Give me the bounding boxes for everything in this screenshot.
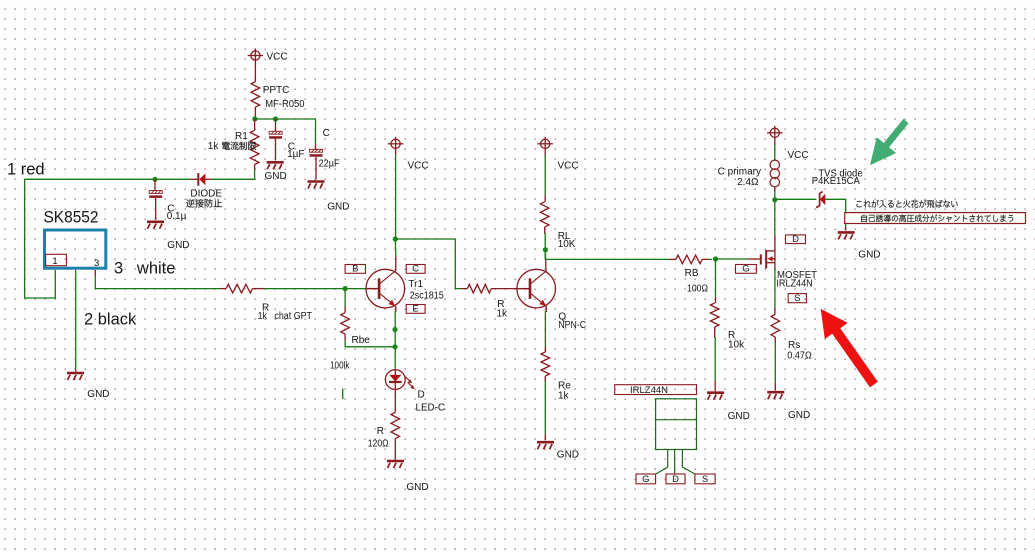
junction at 1uF cap bbox=[273, 116, 278, 121]
svg-text:22µF: 22µF bbox=[319, 159, 340, 170]
power symbol VCC (coil) bbox=[767, 126, 809, 161]
svg-text:G: G bbox=[742, 264, 749, 275]
text 3 white bbox=[114, 260, 175, 278]
wire junction to caps bbox=[255, 119, 316, 144]
svg-text:100Ω: 100Ω bbox=[687, 284, 708, 295]
svg-text:GND: GND bbox=[858, 250, 880, 261]
svg-text:P4KE15CA: P4KE15CA bbox=[812, 176, 860, 187]
module SK8552 body bbox=[45, 230, 106, 268]
svg-text:2.4Ω: 2.4Ω bbox=[737, 177, 759, 188]
resistor PPTC MF-R050 bbox=[251, 82, 305, 110]
svg-text:10k: 10k bbox=[728, 340, 745, 351]
wire MOSFET source down to Rs bbox=[774, 263, 776, 315]
svg-text:1k chat GPT: 1k chat GPT bbox=[258, 311, 312, 322]
svg-text:C: C bbox=[412, 264, 419, 275]
svg-text:IRLZ44N: IRLZ44N bbox=[776, 279, 812, 290]
svg-text:GND: GND bbox=[406, 482, 428, 493]
svg-text:D: D bbox=[792, 234, 799, 245]
pin label S (package) bbox=[695, 474, 715, 485]
resistor Rs 0.47 ohm bbox=[771, 314, 812, 361]
text SK8552 bbox=[44, 209, 99, 227]
svg-text:GND: GND bbox=[728, 411, 750, 422]
resistor RL 10K bbox=[540, 202, 575, 250]
green arrow annotation bbox=[870, 119, 909, 165]
svg-text:DIODE: DIODE bbox=[190, 189, 222, 200]
svg-text:0.1µ: 0.1µ bbox=[167, 211, 187, 222]
wire RL to collector node bbox=[544, 227, 547, 259]
svg-text:1k: 1k bbox=[558, 391, 570, 402]
svg-text:VCC: VCC bbox=[788, 150, 809, 161]
power symbol VCC (top) bbox=[248, 49, 288, 63]
junction Tr1 collector node bbox=[393, 236, 398, 241]
svg-text:Tr1: Tr1 bbox=[408, 279, 423, 290]
TVS diode P4KE15CA bbox=[812, 169, 863, 208]
transistor Q NPN-C bbox=[517, 269, 586, 331]
junction gate node bbox=[713, 256, 718, 261]
svg-text:C: C bbox=[323, 128, 330, 139]
wire stub (stray) bbox=[342, 389, 344, 400]
svg-text:VCC: VCC bbox=[558, 161, 579, 172]
svg-text:1k: 1k bbox=[497, 309, 509, 320]
wire VCC down to collector node bbox=[395, 151, 397, 239]
svg-text:2sc1815: 2sc1815 bbox=[410, 291, 444, 302]
wire gate node to MOSFET gate bbox=[716, 258, 760, 260]
ground below LED resistor bbox=[387, 461, 429, 493]
pin label D (package) bbox=[666, 474, 685, 485]
svg-text:GND: GND bbox=[87, 389, 109, 400]
wire 1uF to ground bbox=[275, 139, 277, 161]
ground below Rs bbox=[767, 392, 810, 421]
LED D LED-C bbox=[385, 370, 445, 414]
pin label 1 bbox=[46, 254, 67, 266]
junction at 0.1u cap tap bbox=[152, 177, 157, 182]
svg-text:C primary: C primary bbox=[718, 167, 761, 178]
svg-text:NPN-C: NPN-C bbox=[558, 320, 586, 331]
junction on emitter net bbox=[392, 327, 397, 332]
pin label B bbox=[345, 264, 365, 275]
diode DIODE (reverse protection) bbox=[186, 173, 222, 208]
svg-text:120Ω: 120Ω bbox=[368, 439, 389, 450]
ground below 10k bbox=[707, 393, 750, 422]
ground below 22uF bbox=[308, 182, 350, 213]
wire R1 bottom to net bbox=[211, 165, 255, 180]
svg-text:3 white: 3 white bbox=[114, 260, 175, 278]
svg-text:1k: 1k bbox=[208, 141, 220, 152]
wire to Tr1 base bbox=[265, 288, 379, 290]
wire collector node to RB bbox=[546, 258, 670, 260]
svg-text:SK8552: SK8552 bbox=[44, 209, 99, 227]
wire collector node to Q base branch bbox=[395, 239, 461, 289]
power symbol VCC (Tr1) bbox=[388, 137, 429, 172]
svg-text:10K: 10K bbox=[558, 239, 576, 250]
capacitor C 1uF bbox=[269, 119, 304, 160]
capacitor C 22uF bbox=[310, 128, 340, 170]
svg-text:2 black: 2 black bbox=[84, 311, 137, 329]
resistor R 1k (chat GPT) bbox=[220, 284, 312, 322]
wire Tr1 emitter down bbox=[394, 307, 397, 369]
resistor R 1k (Q base) bbox=[461, 284, 529, 319]
wire 22uF to ground bbox=[315, 157, 317, 180]
wire VCC to RL bbox=[544, 151, 546, 202]
svg-text:1µF: 1µF bbox=[287, 149, 304, 160]
svg-text:VCC: VCC bbox=[408, 161, 429, 172]
wire TVS to ground drop bbox=[825, 199, 845, 230]
wire coil to drain node bbox=[774, 187, 776, 200]
resistor R 10k (gate pulldown) bbox=[710, 259, 745, 391]
svg-text:Rs: Rs bbox=[788, 340, 800, 351]
ground below 0.1u cap bbox=[147, 222, 190, 251]
svg-text:GND: GND bbox=[327, 202, 349, 213]
red arrow annotation bbox=[821, 309, 878, 388]
MOSFET IRLZ44N symbol bbox=[760, 250, 817, 290]
svg-text:S: S bbox=[794, 293, 800, 304]
svg-text:R: R bbox=[377, 426, 384, 437]
svg-text:S: S bbox=[702, 474, 708, 485]
svg-text:R1: R1 bbox=[235, 131, 248, 142]
ground below TVS bbox=[838, 232, 881, 260]
text 2 black bbox=[84, 311, 137, 329]
pin label D bbox=[786, 234, 806, 245]
wire pin2 to ground (2 black) bbox=[75, 270, 77, 372]
pin label G bbox=[736, 264, 757, 275]
package TO-220 outline bbox=[656, 399, 697, 450]
resistor Re 1k bbox=[541, 352, 571, 402]
svg-text:VCC: VCC bbox=[267, 52, 288, 63]
text 1 red bbox=[7, 161, 45, 179]
transistor Tr1 2sc1815 bbox=[366, 269, 444, 308]
svg-text:IRLZ44N: IRLZ44N bbox=[630, 385, 668, 396]
package legs bbox=[656, 450, 695, 475]
svg-text:LED-C: LED-C bbox=[416, 403, 446, 414]
svg-text:1: 1 bbox=[53, 256, 58, 266]
wire R to ground bbox=[394, 439, 396, 460]
svg-text:G: G bbox=[642, 474, 649, 485]
pin label C bbox=[406, 264, 425, 275]
wire Q emitter to Re bbox=[544, 307, 547, 352]
svg-text:GND: GND bbox=[167, 240, 189, 251]
svg-text:3: 3 bbox=[94, 258, 99, 269]
wire node to Q collector bbox=[545, 250, 547, 271]
wire RB to gate node bbox=[709, 258, 712, 260]
wire collector node to Tr1 C bbox=[394, 239, 397, 271]
junction drain node bbox=[772, 197, 777, 202]
note text (sparks do not fly) bbox=[856, 200, 957, 208]
ground below 1uF bbox=[265, 162, 287, 182]
svg-text:0.47Ω: 0.47Ω bbox=[787, 351, 812, 362]
inductor C primary 2.4ohm bbox=[718, 140, 780, 188]
pin label E bbox=[406, 304, 425, 315]
svg-text:PPTC: PPTC bbox=[263, 85, 290, 96]
svg-text:Rbe: Rbe bbox=[352, 335, 371, 346]
resistor Rbe 100lk bbox=[330, 289, 395, 372]
wire net mic power (1 red) bbox=[25, 179, 211, 298]
junction below RL bbox=[543, 247, 548, 252]
junction at Rbe bottom tap bbox=[392, 344, 397, 349]
resistor RB 100 ohm bbox=[670, 255, 709, 294]
resistor R1 1k (current limit) bbox=[208, 130, 259, 164]
svg-text:MF-R050: MF-R050 bbox=[265, 99, 305, 110]
svg-text:GND: GND bbox=[788, 410, 810, 421]
ground below SK8552 pin2 bbox=[67, 373, 110, 400]
note box (self-induction shunt) bbox=[845, 213, 1026, 224]
wire MOSFET drain up bbox=[774, 200, 776, 251]
part label box IRLZ44N bbox=[615, 385, 697, 396]
power symbol VCC (Q) bbox=[538, 137, 579, 172]
svg-text:D: D bbox=[418, 390, 425, 401]
pin number 3 bbox=[94, 258, 99, 269]
wire LED to R bbox=[394, 390, 396, 413]
wire R1 top stub bbox=[254, 119, 256, 130]
wire drain node to TVS bbox=[775, 198, 817, 200]
svg-text:D: D bbox=[672, 474, 679, 485]
svg-text:B: B bbox=[352, 264, 358, 275]
svg-text:1 red: 1 red bbox=[7, 161, 45, 179]
resistor R 120 ohm bbox=[368, 412, 400, 449]
svg-text:GND: GND bbox=[265, 171, 287, 182]
pin label S bbox=[788, 293, 806, 304]
pin label G (package) bbox=[636, 474, 656, 485]
ground below Re bbox=[537, 442, 579, 460]
svg-text:100lk: 100lk bbox=[330, 361, 350, 372]
wire PPTC to node VBAT bbox=[254, 107, 256, 119]
wire VCC to PPTC bbox=[254, 63, 256, 82]
wire Rs to ground bbox=[774, 337, 776, 390]
svg-text:E: E bbox=[412, 304, 418, 315]
wire 0.1u to ground bbox=[155, 198, 157, 220]
wire pin3 signal out bbox=[95, 270, 220, 289]
wire Re to ground bbox=[544, 376, 546, 440]
node junction at PPTC bottom bbox=[252, 116, 257, 121]
svg-text:RB: RB bbox=[685, 268, 699, 279]
junction at Rbe tap bbox=[343, 286, 348, 291]
svg-text:GND: GND bbox=[557, 450, 579, 461]
capacitor C 0.1u bbox=[149, 179, 186, 222]
